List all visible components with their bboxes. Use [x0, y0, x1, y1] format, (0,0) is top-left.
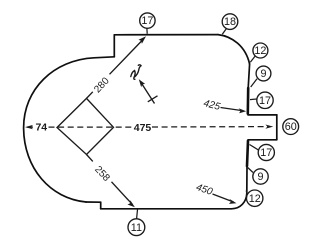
- balloon 17 lower right: [250, 144, 275, 160]
- svg-text:12: 12: [249, 193, 261, 205]
- svg-text:60: 60: [285, 121, 297, 133]
- svg-text:74: 74: [35, 122, 47, 134]
- wire top-right corner arc: [218, 35, 250, 64]
- machining mark squiggle: [131, 65, 141, 79]
- wire big left arc: [24, 57, 115, 202]
- wire right vertical upper: [248, 64, 249, 88]
- svg-text:17: 17: [141, 15, 153, 27]
- wire bottom-left short horizontal: [86, 201, 101, 203]
- arrowhead left of centerline (74): [25, 125, 33, 129]
- wire right vertical upper thick (surface 425): [247, 88, 250, 114]
- balloon 11 bottom: [128, 210, 145, 236]
- diamond: [57, 98, 114, 154]
- wire tab bottom: [248, 139, 277, 141]
- balloon 9 lower right: [248, 168, 269, 185]
- svg-text:17: 17: [260, 147, 272, 159]
- wire tab top: [248, 114, 277, 116]
- wire bottom step vertical: [100, 202, 102, 209]
- arrowhead of 280 at top line: [139, 36, 147, 44]
- leader line 258 (upper segment from diamond bottom vertex): [87, 155, 93, 162]
- wire top step vertical: [113, 35, 115, 57]
- arrowhead of 258 at bottom line: [128, 200, 135, 207]
- machining mark cross tick: [148, 96, 158, 102]
- machining mark arrowhead: [139, 79, 145, 87]
- arrowhead of 425: [239, 108, 247, 113]
- leader line 280 (upper segment to arrow): [110, 39, 144, 74]
- balloon 12 lower right: [246, 190, 263, 206]
- svg-text:9: 9: [257, 171, 263, 183]
- balloon 9 upper right: [251, 66, 271, 87]
- wire top horizontal: [114, 34, 218, 36]
- balloon 17 top: [140, 13, 155, 34]
- svg-text:9: 9: [260, 68, 266, 80]
- balloon 17 mid right: [250, 92, 273, 108]
- svg-text:17: 17: [259, 95, 271, 107]
- arrowhead right of centerline at tab: [265, 125, 273, 129]
- machining mark arrow shaft: [141, 82, 155, 104]
- arrowhead of 450: [229, 199, 237, 204]
- wire right vertical lower: [246, 166, 248, 194]
- leader line 280 (lower segment from diamond top vertex): [87, 92, 93, 99]
- leader arrow 425: [221, 108, 244, 111]
- balloon 18: [222, 14, 238, 34]
- leader line 258 (lower segment to arrow): [112, 182, 133, 205]
- wire bottom-right corner arc: [232, 194, 247, 209]
- wire bottom horizontal: [101, 208, 232, 210]
- wire tab right edge: [276, 115, 278, 140]
- balloon 12 upper right: [250, 43, 268, 62]
- svg-text:475: 475: [134, 122, 152, 134]
- svg-text:18: 18: [224, 16, 236, 28]
- balloon 60: [283, 119, 299, 135]
- leader arrow 450: [213, 194, 234, 202]
- svg-text:11: 11: [131, 222, 142, 234]
- wire right vertical lower thick (surface 450): [247, 141, 248, 166]
- svg-text:12: 12: [254, 45, 266, 57]
- centerline dashed 475: [27, 126, 271, 129]
